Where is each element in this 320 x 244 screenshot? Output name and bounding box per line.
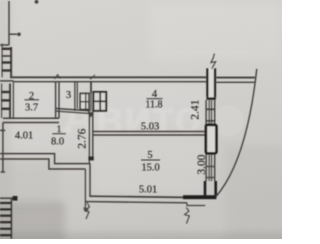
window hatch room2 (left window) xyxy=(1,84,3,119)
balcony arc xyxy=(216,69,257,197)
watermark logo circle xyxy=(212,105,244,137)
room2/3 divider wall xyxy=(55,82,57,119)
top wall outer line xyxy=(10,76,206,78)
hall left wall end tick xyxy=(1,171,5,173)
room interior light: room 5 xyxy=(94,137,204,194)
room5 bottom wall xyxy=(90,196,184,197)
staircase rail xyxy=(10,198,12,239)
room interior light: rooms 2-3 xyxy=(14,82,78,118)
room1/5 divider left rail upper xyxy=(88,111,90,164)
room interior light: hall xyxy=(5,124,86,151)
hall bottom wall upper line (stepped) xyxy=(0,154,90,164)
room2 left inner wall xyxy=(12,82,14,119)
left rail bottom arrow tick xyxy=(84,208,89,212)
room interior light: room 4 xyxy=(94,85,204,129)
margin shading right xyxy=(225,145,295,244)
junction blob xyxy=(88,157,93,161)
right wall column1 thick U xyxy=(206,68,208,97)
hall left tick xyxy=(0,129,5,131)
right wall column1 interior xyxy=(209,68,214,97)
wall above shafts xyxy=(90,82,92,94)
notch below corner xyxy=(187,203,205,206)
pillar between windows xyxy=(206,125,217,153)
tick with dot xyxy=(9,33,17,35)
tick over room2/3 divider xyxy=(55,75,61,79)
break zigzag bottom-right xyxy=(185,208,190,224)
light area upper right xyxy=(150,5,280,60)
bottom shadow band xyxy=(0,233,292,244)
room1/5 divider left rail lower xyxy=(84,169,86,211)
shaft B (vent block) xyxy=(93,92,106,111)
left edge shading xyxy=(0,0,12,244)
bottom wall thick segment xyxy=(183,195,216,199)
wall between shafts xyxy=(90,93,92,110)
staircase top line with end tick xyxy=(0,197,15,199)
hall left wall xyxy=(2,123,4,172)
corner vignette bottom-left xyxy=(0,202,65,244)
dot top xyxy=(35,0,39,4)
room1/5 divider right rail upper xyxy=(92,111,94,161)
window hatch left top (loggia window) xyxy=(1,44,3,78)
room4/5 divider wall xyxy=(93,131,206,133)
junction arrow tick xyxy=(88,112,93,117)
left boundary wall top xyxy=(8,1,10,45)
margin shading left xyxy=(0,160,60,210)
window right A (glazing lines) xyxy=(205,100,207,125)
corner column right edge xyxy=(214,181,217,195)
wall stub left edge xyxy=(0,80,14,82)
shaft A (vent block) xyxy=(80,93,89,109)
room1/5 divider right rail lower xyxy=(89,164,91,197)
tick over shaft wall xyxy=(90,75,95,80)
staircase steps xyxy=(0,202,11,204)
watermark Avito text xyxy=(62,91,202,143)
tick left xyxy=(0,44,9,46)
wall below room3 and shafts xyxy=(56,109,90,111)
room2 bottom wall xyxy=(3,117,59,119)
top wall inner line xyxy=(14,81,207,83)
room3 right wall xyxy=(74,82,76,111)
window right B (glazing lines) xyxy=(205,154,207,181)
break zigzag top of column xyxy=(211,54,216,70)
hall bottom wall lower line (stepped) xyxy=(0,159,85,169)
corner column left edge xyxy=(204,181,207,195)
break zigzag bottom-left xyxy=(85,203,90,220)
